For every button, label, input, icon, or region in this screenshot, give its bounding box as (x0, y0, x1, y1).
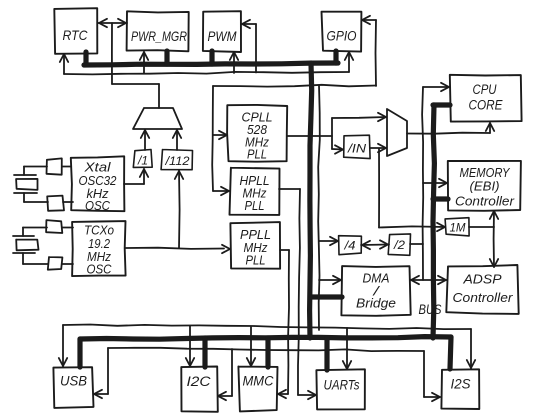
svg-text:ADSP: ADSP (462, 272, 501, 287)
svg-text:MMC: MMC (243, 374, 274, 389)
wire Xtal-/1 (124, 169, 148, 184)
mux M2 (387, 109, 407, 156)
svg-text:PLL: PLL (247, 148, 267, 162)
wire TCXO-PPLL (125, 245, 230, 253)
svg-text:PWR_MGR: PWR_MGR (131, 28, 187, 44)
block UARTs (316, 369, 365, 409)
bus trunk top (84, 52, 338, 65)
label BUS (419, 301, 443, 317)
bus stub MEMORY (433, 196, 448, 201)
wire pll-select (212, 85, 376, 195)
block I2C (181, 367, 218, 412)
wire pad1-Xtal (62, 166, 71, 168)
svg-text:OSC: OSC (87, 263, 113, 277)
svg-text:/112: /112 (164, 154, 189, 168)
svg-text:TCXo: TCXo (84, 224, 114, 238)
block PWR_MGR (127, 11, 189, 51)
svg-text:/IN: /IN (347, 142, 367, 156)
wire /1-mux (141, 130, 149, 150)
block TCXO 19.2MHz (72, 221, 126, 276)
bus stub MMC (265, 338, 270, 367)
bus elbow I2S (450, 337, 451, 369)
wire /4-/2 (361, 240, 389, 249)
pad P4 (48, 257, 63, 270)
wire /IN-mux (370, 144, 386, 152)
svg-text:Xtal: Xtal (83, 161, 112, 175)
bus stub DMA (311, 294, 342, 299)
svg-text:Controller: Controller (453, 290, 514, 305)
svg-text:I2C: I2C (187, 374, 211, 389)
divider /1 (133, 150, 152, 168)
svg-text:Controller: Controller (455, 194, 515, 209)
block Xtal OSC32kHz (71, 156, 125, 213)
wire /IN-1M (379, 149, 445, 232)
block RTC (54, 8, 97, 54)
block I2S (441, 369, 479, 409)
wire RTC-PWR_MGR (98, 19, 127, 27)
block HPLL (230, 168, 280, 215)
svg-text:1M: 1M (450, 221, 466, 235)
block 1M (445, 218, 469, 236)
svg-text:BUS: BUS (419, 301, 443, 317)
block MEMORY (EBI) Controller (448, 161, 521, 211)
wire clkdist top (60, 20, 353, 75)
block GPIO (322, 12, 362, 52)
svg-text:Bridge: Bridge (356, 296, 396, 311)
divider /4 (339, 236, 362, 255)
wire sysclk net (410, 83, 449, 280)
wire div4 feed (318, 86, 341, 331)
wire periph clk (59, 325, 475, 370)
wire DMA-ADSP (410, 276, 447, 284)
block CPLL (227, 105, 287, 162)
svg-text:/1: /1 (137, 154, 148, 168)
bus stub GPIO (333, 51, 338, 63)
wire mux-CPU (407, 123, 494, 134)
wire periph data (94, 348, 440, 401)
pad P2 (47, 196, 64, 211)
svg-text:I2S: I2S (451, 377, 471, 392)
block PPLL (230, 222, 280, 269)
block PWM (203, 11, 241, 52)
svg-text:CPU: CPU (473, 82, 497, 97)
svg-text:RTC: RTC (63, 27, 89, 43)
wire pad3-TCXO (62, 227, 73, 229)
bus stub I2C (202, 338, 207, 367)
block MMC (238, 367, 277, 412)
bus trunk bottom (80, 337, 451, 340)
svg-text:CORE: CORE (469, 98, 504, 113)
wire HPLL-UARTs (279, 189, 316, 399)
wire MEMORY-ADSP (469, 211, 498, 267)
wire pad4-TCXO (62, 263, 73, 265)
bus stub UARTs (324, 338, 329, 370)
bus stub PWM (209, 51, 214, 64)
block USB (53, 367, 93, 408)
divider /112 (161, 150, 192, 170)
svg-text:PPLL: PPLL (240, 228, 271, 242)
crystal X2 (13, 228, 48, 265)
wire /112-mux (173, 130, 181, 150)
block CPU CORE (450, 75, 522, 122)
block DMA Bridge (341, 266, 410, 316)
wire PPLL-MMC (278, 250, 289, 398)
crystal X1 (14, 167, 48, 203)
wire CPLL-mux (287, 113, 386, 154)
svg-text:19.2: 19.2 (88, 237, 110, 251)
svg-text:GPIO: GPIO (327, 28, 357, 44)
bus trunk right (433, 105, 434, 338)
divider /IN (344, 135, 370, 158)
svg-text:(EBI): (EBI) (470, 179, 500, 194)
mux M1 (133, 108, 182, 129)
wire TCXO-/112 (175, 171, 183, 248)
svg-text:UARTs: UARTs (324, 378, 360, 393)
wire pad2-Xtal (63, 201, 73, 203)
svg-text:USB: USB (60, 374, 87, 389)
bus stub PWR_MGR (164, 51, 169, 64)
svg-text:OSC32: OSC32 (79, 174, 117, 188)
pad P1 (47, 158, 62, 174)
svg-text:/2: /2 (393, 238, 405, 252)
svg-text:PLL: PLL (246, 254, 266, 268)
block ADSP Controller (446, 265, 518, 314)
bus trunk vertical (310, 63, 312, 338)
bus stub USB (77, 339, 82, 367)
wire GPIO select (362, 16, 376, 86)
divider /2 (388, 234, 410, 255)
pad P3 (46, 220, 62, 233)
svg-text:PWM: PWM (208, 28, 237, 44)
svg-text:PLL: PLL (245, 199, 265, 213)
svg-text:OSC: OSC (85, 199, 111, 213)
wire clockmux feed (112, 23, 159, 108)
bus stub CPU (433, 102, 450, 107)
svg-text:/4: /4 (343, 239, 355, 253)
